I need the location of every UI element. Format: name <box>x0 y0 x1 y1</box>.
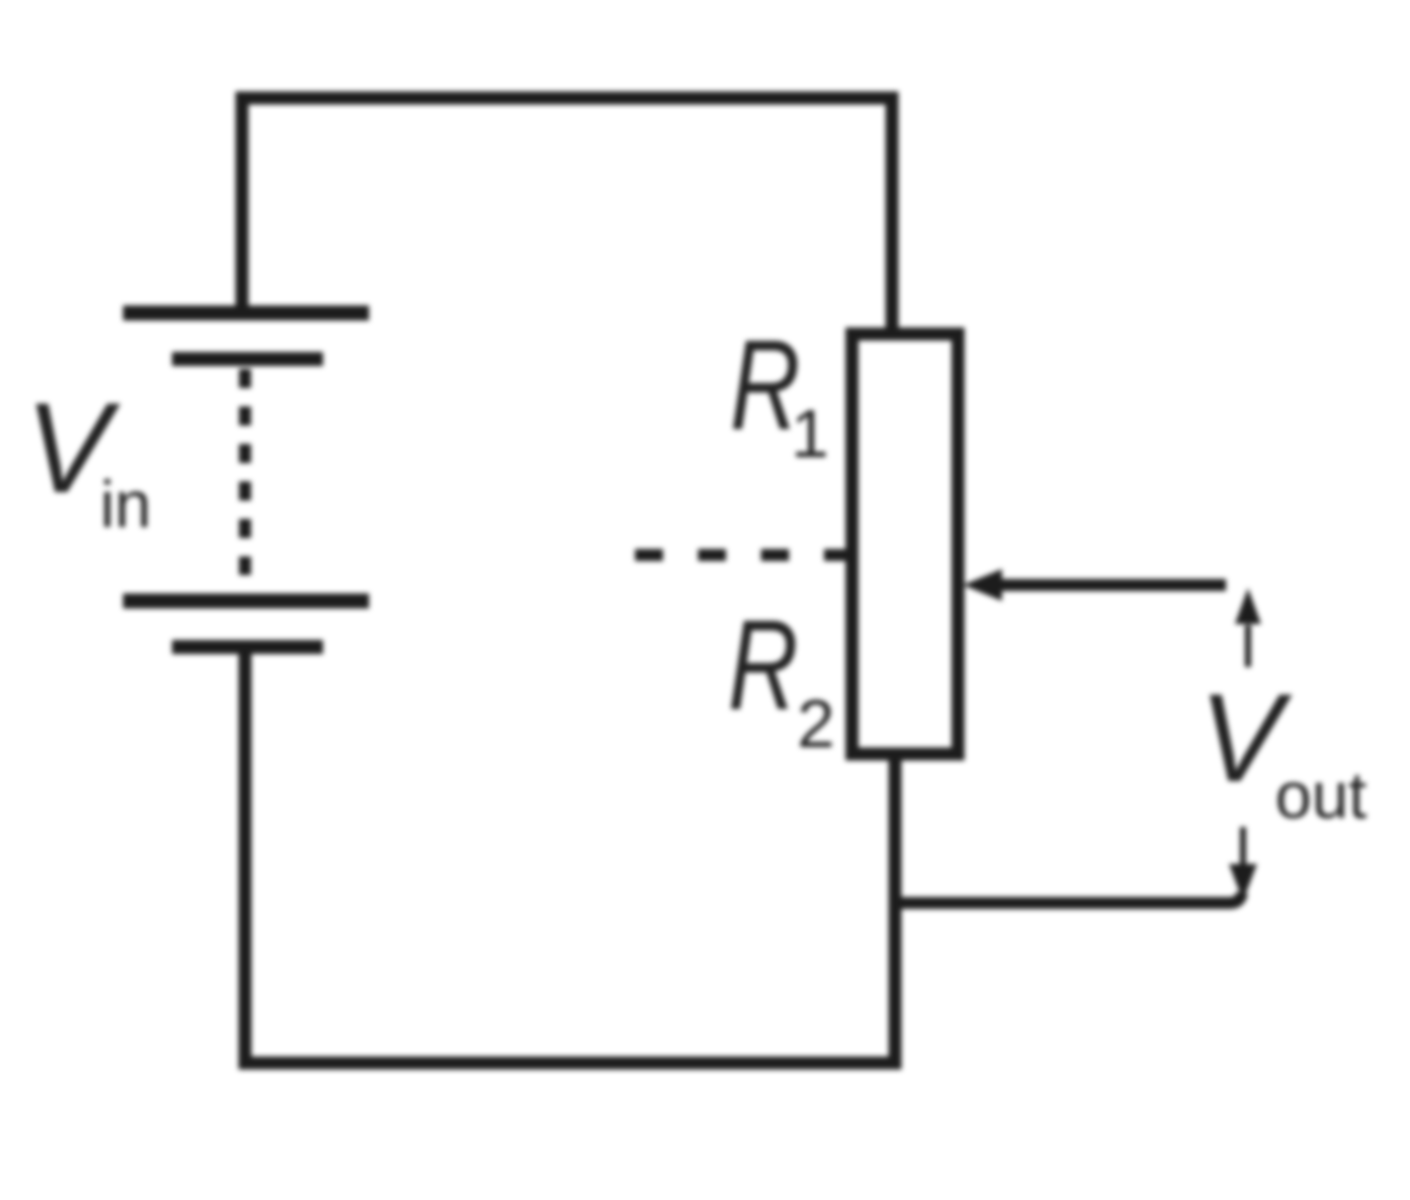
svg-text:R: R <box>728 594 798 737</box>
V_out up arrow shaft <box>1245 625 1251 667</box>
svg-text:R: R <box>730 314 800 457</box>
V_out down arrowhead <box>1229 864 1257 901</box>
svg-text:1: 1 <box>791 396 829 472</box>
wiper lead wire <box>1000 579 1226 591</box>
battery V_in internal dashed multi-cell link <box>239 369 251 575</box>
svg-text:2: 2 <box>797 686 835 762</box>
svg-text:out: out <box>1275 758 1367 832</box>
wire: top rail, battery + terminal up and across to potentiometer top terminal <box>242 98 892 334</box>
wire: bottom rail, battery - terminal down and across to potentiometer bottom terminal <box>245 645 895 1063</box>
battery V_in cell 1 long plate (+) <box>123 306 369 321</box>
battery V_in cell 2 long plate (+) <box>123 594 369 609</box>
battery V_in cell 2 short plate (-) <box>172 640 323 654</box>
svg-text:in: in <box>100 467 151 541</box>
wiper lead arrowhead (points at potentiometer track) <box>963 569 1002 601</box>
potentiometer body (track forming R1 and R2) <box>852 334 958 754</box>
wiper position dashed line <box>635 549 852 561</box>
battery V_in cell 1 short plate (-) <box>172 352 323 366</box>
wire: output tap from R2 bottom node to V_out <box>895 893 1242 903</box>
V_out down arrow shaft <box>1240 827 1246 866</box>
V_out up arrowhead <box>1235 588 1261 624</box>
